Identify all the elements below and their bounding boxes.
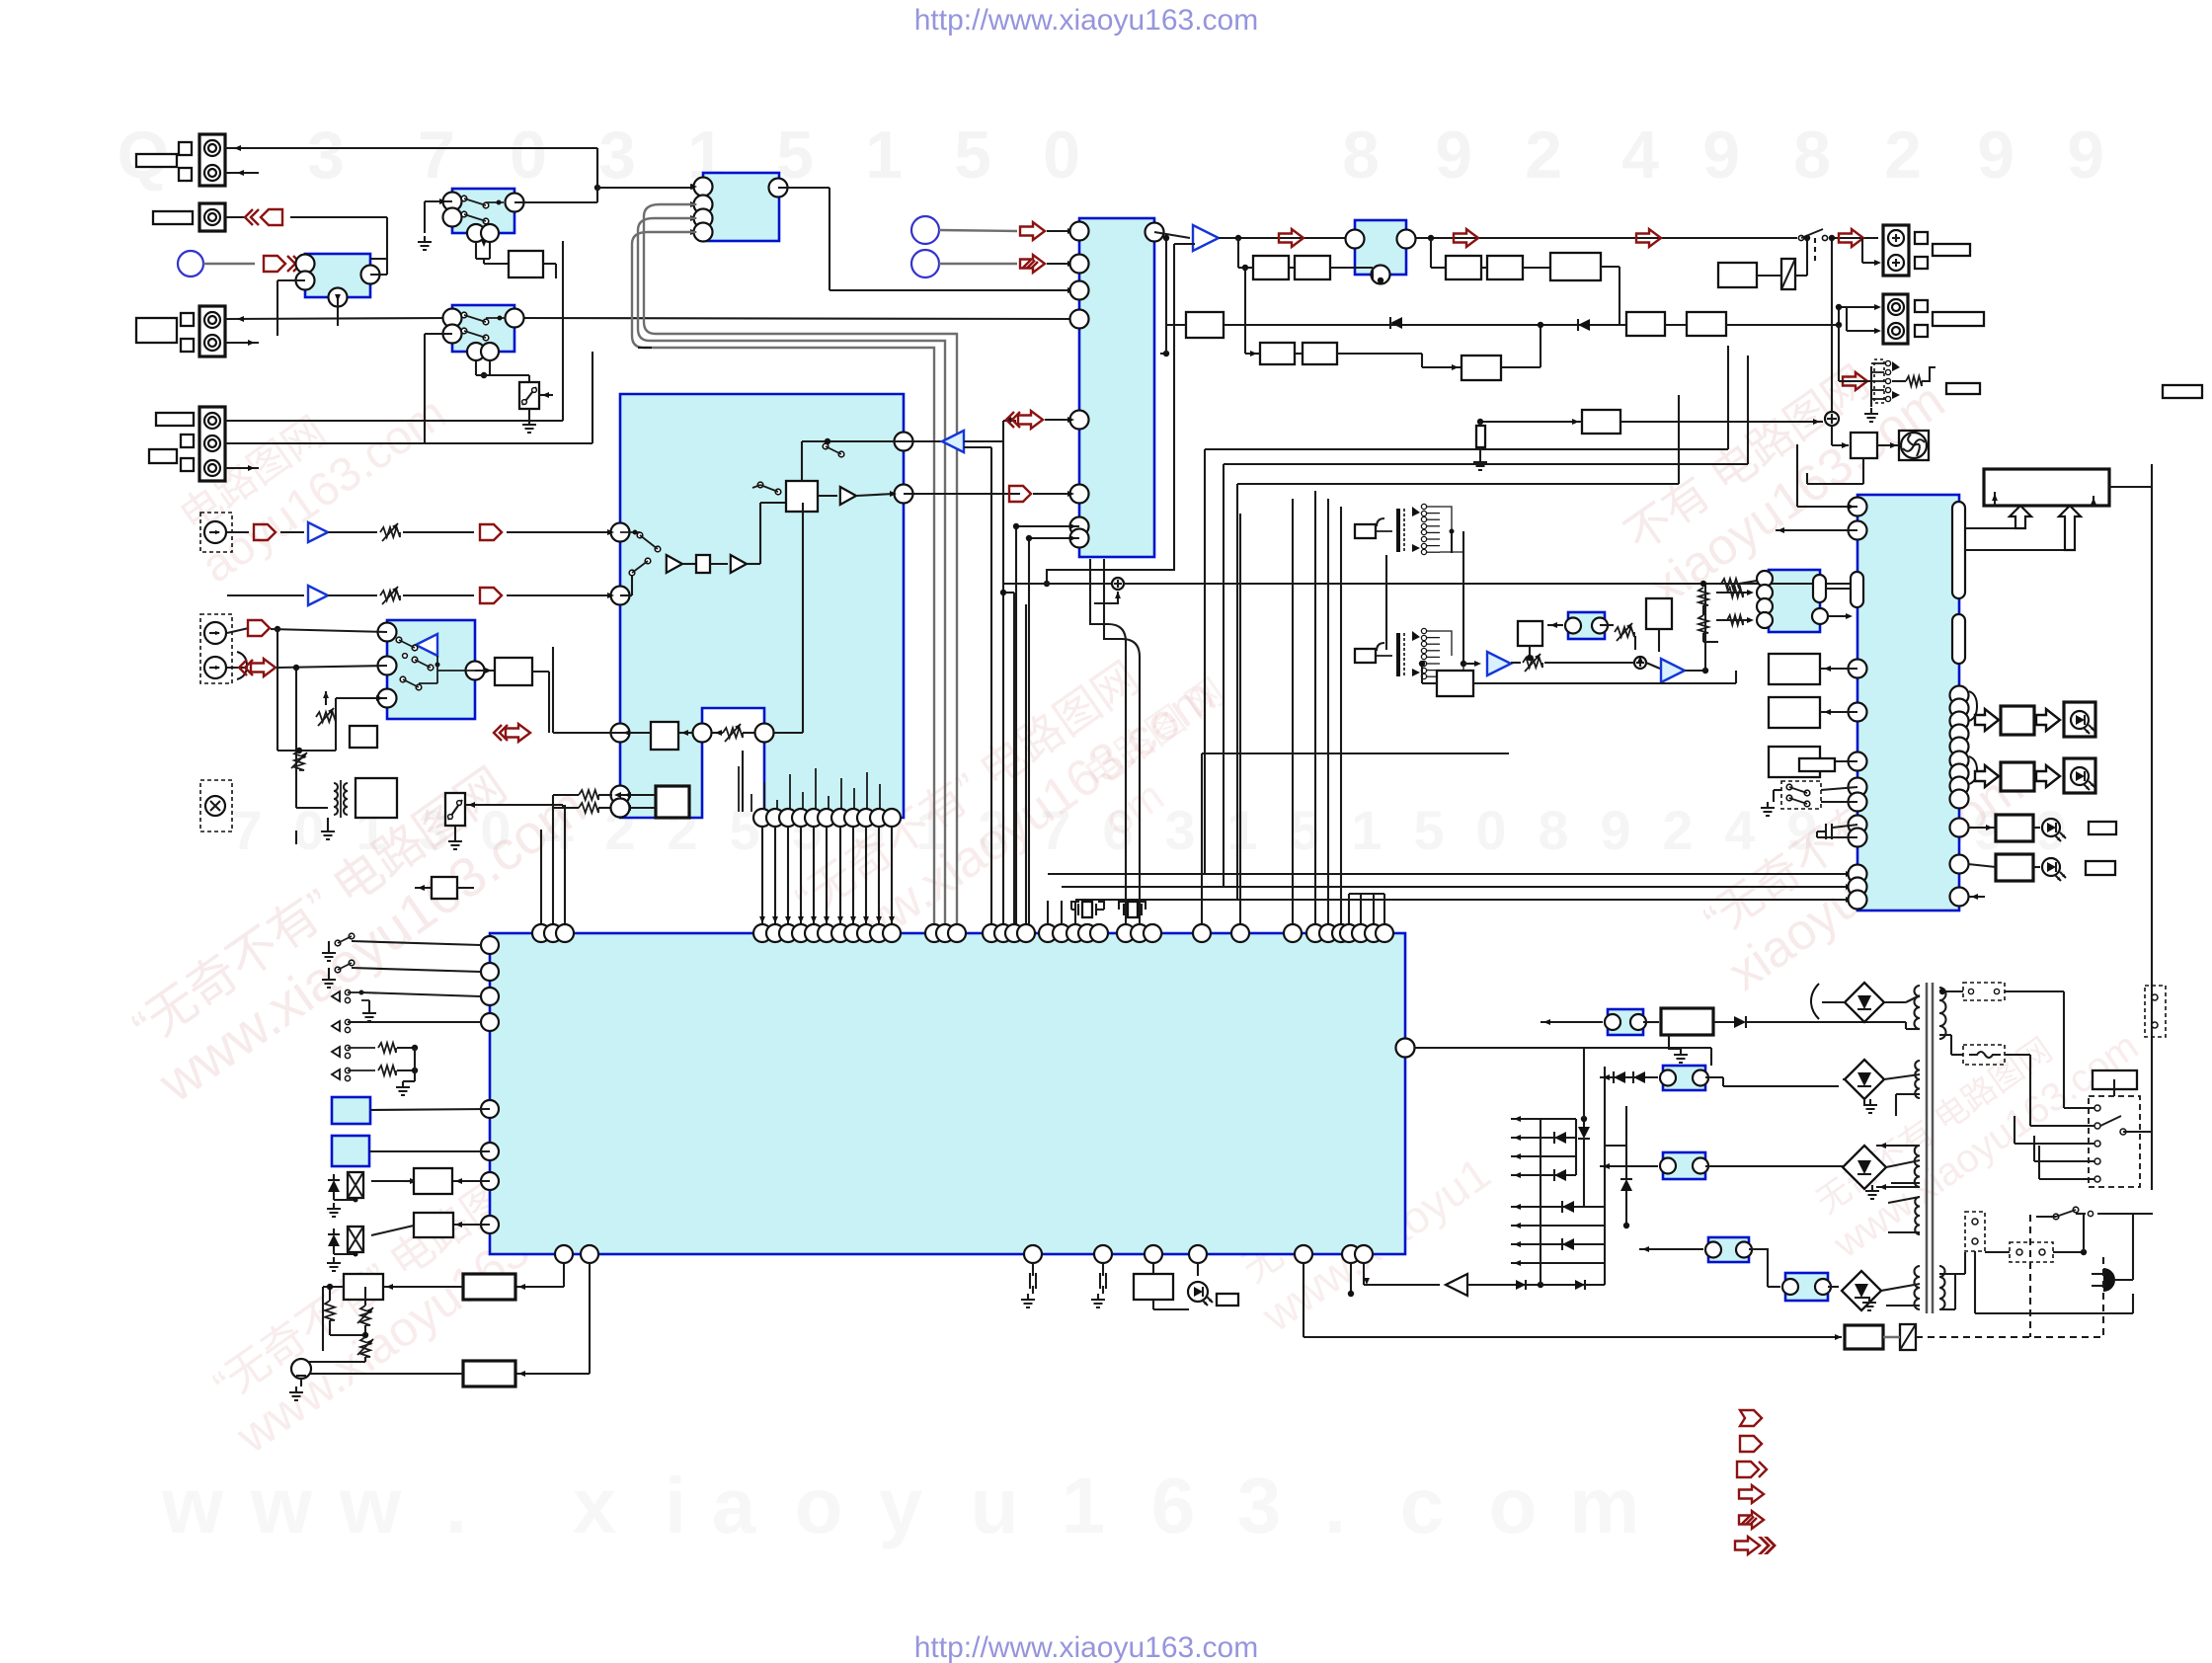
svg-text:9: 9: [1435, 118, 1472, 193]
svg-text:y: y: [879, 1462, 923, 1549]
svg-text:2: 2: [1662, 799, 1693, 861]
svg-text:8: 8: [1538, 799, 1568, 861]
svg-text:3: 3: [1237, 1462, 1282, 1549]
svg-text:1: 1: [1226, 799, 1257, 861]
svg-text:m: m: [1569, 1462, 1639, 1549]
svg-text:o: o: [1489, 1462, 1538, 1549]
svg-text:9: 9: [1977, 118, 2014, 193]
svg-text:9: 9: [1702, 118, 1740, 193]
svg-text:8: 8: [1793, 118, 1831, 193]
svg-text:http://www.xiaoyu163.com: http://www.xiaoyu163.com: [914, 4, 1259, 37]
svg-text:x: x: [573, 1462, 617, 1549]
svg-text:1: 1: [1351, 799, 1382, 861]
svg-text:w: w: [161, 1462, 224, 1549]
svg-text:3: 3: [598, 118, 636, 193]
svg-text:7: 7: [418, 118, 455, 193]
svg-text:c: c: [1400, 1462, 1445, 1549]
svg-text:2: 2: [1884, 118, 1922, 193]
svg-text:5: 5: [729, 799, 759, 861]
svg-text:8: 8: [1342, 118, 1380, 193]
svg-text:1: 1: [1062, 1462, 1106, 1549]
svg-text:9: 9: [2067, 118, 2104, 193]
svg-text:5: 5: [954, 118, 991, 193]
svg-text:6: 6: [1151, 1462, 1196, 1549]
svg-text:o: o: [795, 1462, 843, 1549]
svg-text:2: 2: [1525, 118, 1562, 193]
svg-text:4: 4: [1724, 799, 1755, 861]
svg-text:0: 0: [1475, 799, 1506, 861]
svg-text:1: 1: [865, 118, 903, 193]
svg-text:a: a: [712, 1462, 756, 1549]
svg-text:0: 0: [1043, 118, 1080, 193]
svg-text:u: u: [971, 1462, 1019, 1549]
svg-text:w: w: [250, 1462, 313, 1549]
svg-text:.: .: [445, 1462, 467, 1549]
svg-text:9: 9: [1600, 799, 1630, 861]
svg-text:http://www.xiaoyu163.com: http://www.xiaoyu163.com: [914, 1631, 1259, 1663]
svg-text:w: w: [339, 1462, 402, 1549]
svg-text:3: 3: [307, 118, 345, 193]
svg-text:4: 4: [1621, 118, 1659, 193]
svg-text:5: 5: [1413, 799, 1444, 861]
svg-text:i: i: [665, 1462, 686, 1549]
svg-text:0: 0: [510, 118, 547, 193]
svg-text:.: .: [1324, 1462, 1346, 1549]
svg-text:7: 7: [231, 799, 262, 861]
